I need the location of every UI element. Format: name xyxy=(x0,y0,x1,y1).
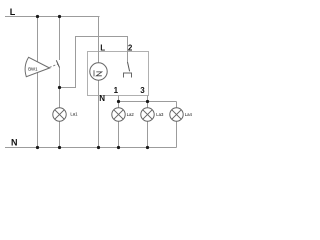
svg-text:BW1: BW1 xyxy=(28,66,38,71)
svg-text:La4: La4 xyxy=(185,112,193,117)
svg-text:La1: La1 xyxy=(70,112,78,117)
svg-text:N: N xyxy=(99,94,105,103)
svg-text:3: 3 xyxy=(140,86,145,95)
svg-text:1: 1 xyxy=(114,86,119,95)
svg-text:2: 2 xyxy=(128,44,133,53)
svg-text:La3: La3 xyxy=(156,112,164,117)
svg-text:La2: La2 xyxy=(127,112,135,117)
svg-text:L: L xyxy=(100,44,105,53)
svg-text:N: N xyxy=(11,137,18,147)
svg-text:L: L xyxy=(10,7,16,17)
